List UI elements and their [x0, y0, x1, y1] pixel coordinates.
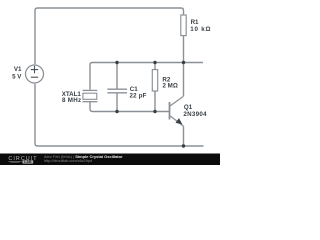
- svg-text:2N3904: 2N3904: [183, 111, 207, 118]
- resistor R2: [152, 70, 157, 91]
- voltage source V1: [26, 65, 44, 83]
- wire C1 bottom lead: [116, 93, 118, 112]
- junction node C1 bottom: [115, 110, 118, 113]
- resistor R1: [181, 15, 186, 36]
- junction node R2 bottom: [153, 110, 156, 113]
- wire C1 top lead: [116, 63, 118, 90]
- svg-text:2 MΩ: 2 MΩ: [163, 83, 178, 90]
- capacitor C1: [107, 89, 127, 93]
- junction node emitter on bottom rail: [182, 144, 185, 147]
- svg-text:8 MHz: 8 MHz: [62, 97, 81, 104]
- wire R1 bottom to mid rail: [183, 36, 185, 63]
- wire top rail from V1 to R1: [35, 8, 184, 64]
- svg-text:22 pF: 22 pF: [130, 92, 147, 99]
- svg-text:Alex Feh (fehlc) | Simple Crys: Alex Feh (fehlc) | Simple Crystal Oscill…: [44, 154, 123, 159]
- svg-text:http://circuitlab.com/c6x29pd: http://circuitlab.com/c6x29pd: [44, 159, 92, 163]
- wire V1 bottom + bottom rail: [35, 84, 204, 146]
- wire collector from mid rail down: [183, 63, 185, 97]
- transistor Q1 emitter arrow: [176, 118, 183, 124]
- wire R2 top lead: [154, 63, 156, 70]
- transistor Q1: [170, 96, 184, 126]
- crystal XTAL1: [83, 90, 98, 101]
- junction node C1 top: [115, 61, 118, 64]
- wire mid rail with crystal top lead: [90, 63, 203, 90]
- svg-text:LAB: LAB: [24, 160, 32, 164]
- footer logo waveform lines: [9, 161, 22, 162]
- wire R2 bottom lead: [154, 91, 156, 112]
- svg-text:5 V: 5 V: [12, 73, 22, 80]
- footer logo LAB: [22, 160, 33, 163]
- wire emitter down to bottom rail: [183, 126, 185, 146]
- svg-text:10 kΩ: 10 kΩ: [190, 26, 211, 33]
- wire crystal bottom + base line to Q1: [90, 102, 169, 112]
- svg-text:V1: V1: [14, 66, 22, 73]
- junction node R2 top: [153, 61, 156, 64]
- junction node collector/R1 on mid rail: [182, 61, 185, 64]
- footer bar: [0, 154, 220, 166]
